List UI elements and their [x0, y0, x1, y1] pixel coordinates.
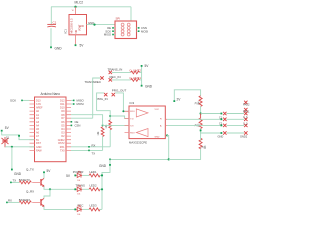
- svg-text:T2I: T2I: [130, 125, 134, 127]
- node GND (C1): [50, 46, 62, 50]
- svg-text:D6: D6: [61, 121, 65, 124]
- junction GND wire: [93, 24, 95, 26]
- pad row C: [219, 122, 248, 127]
- wire R6 top to gnd row: [200, 132, 202, 141]
- wire CE stub: [71, 120, 79, 124]
- junction on 5V wire at IC1 pin: [74, 6, 76, 8]
- svg-text:MOSI: MOSI: [77, 102, 84, 106]
- LED POWER: [76, 171, 82, 178]
- label MAX3232CPE: [129, 141, 147, 145]
- wire GND row: [5, 146, 35, 148]
- node 5V left: [1, 126, 10, 131]
- wire REC_IN to C_LIMT1: [112, 79, 131, 81]
- svg-text:VCC: VCC: [155, 109, 160, 111]
- svg-text:MLC2: MLC2: [75, 1, 84, 5]
- label REC_IN: [110, 75, 121, 79]
- resistor LED1: [89, 174, 100, 177]
- svg-text:VIN: VIN: [76, 29, 78, 33]
- svg-text:C_2: C_2: [243, 122, 248, 125]
- svg-text:D5: D5: [61, 125, 65, 128]
- wire Q_RX emitter to REC led: [44, 206, 75, 209]
- wire bus TRANSREC jog: [97, 111, 111, 120]
- node IC3 gnd pin square: [166, 135, 168, 137]
- svg-text:GND: GND: [218, 135, 224, 139]
- net stub X REC_IN: [109, 78, 112, 81]
- label GND on wire: [88, 21, 94, 25]
- pin SPI MOSI: [137, 29, 149, 33]
- svg-text:D2: D2: [61, 135, 65, 138]
- LED TRANS: [76, 185, 82, 192]
- svg-text:TX: TX: [13, 179, 17, 183]
- resistor divider R3 (vertical): [105, 120, 112, 130]
- svg-text:TX: TX: [92, 151, 96, 155]
- node 2V: [173, 97, 181, 102]
- wire emitter down to Q_RX collector: [44, 189, 50, 198]
- svg-text:10k: 10k: [97, 131, 100, 136]
- junction PRG_OUT at IC3: [122, 110, 124, 112]
- junction emitter: [49, 188, 51, 190]
- junction gnd rail row2: [101, 188, 103, 190]
- wire PRG_IN corner: [97, 93, 104, 111]
- label POWER: [73, 170, 84, 174]
- pad row B: [219, 116, 248, 121]
- wire IC3 R1out to pads: [167, 118, 221, 120]
- svg-text:A0: A0: [36, 110, 40, 113]
- resistor C_LIMT2: [129, 68, 141, 73]
- svg-text:5V: 5V: [47, 169, 52, 173]
- junction gnd rail row1: [101, 174, 103, 176]
- svg-text:SPI: SPI: [116, 17, 121, 21]
- pin Q_RX base: [32, 201, 41, 203]
- wire 5V to switch and pin: [2, 131, 35, 139]
- svg-text:C_3: C_3: [243, 116, 248, 119]
- resistor R6 (vertical): [199, 138, 207, 149]
- pin SPI OE: [107, 26, 115, 30]
- label C1: [53, 21, 57, 25]
- resistor C_LIMT1: [129, 76, 141, 81]
- svg-text:LED3: LED3: [90, 204, 97, 208]
- svg-text:D6: D6: [77, 214, 81, 216]
- label TRANSREC: [85, 80, 102, 84]
- svg-text:1k: 1k: [196, 123, 198, 126]
- svg-text:1k: 1k: [202, 145, 204, 148]
- wire C1 vertical: [50, 7, 52, 24]
- junction R4 top: [102, 124, 104, 126]
- transistor Q_RX: [41, 198, 44, 206]
- resistor divider R4 (vertical): [97, 127, 104, 137]
- connector SPI: [115, 21, 137, 39]
- label PRG_IN: [97, 97, 108, 101]
- net stub X PAD2: [243, 101, 250, 107]
- label D5: [77, 194, 81, 196]
- svg-text:5V: 5V: [5, 126, 10, 130]
- wire IC1 GND to SPI pin1: [87, 24, 116, 26]
- svg-text:PRG_OUT: PRG_OUT: [112, 89, 127, 93]
- wire TRANSREC from D8: [71, 117, 93, 119]
- wire LED2 resistor to gnd rail: [99, 188, 102, 190]
- svg-text:A: A: [160, 124, 162, 127]
- wire R4 bottom to TX row: [102, 136, 104, 150]
- svg-text:A3: A3: [36, 121, 40, 124]
- svg-text:1k: 1k: [196, 101, 198, 104]
- label GND bottom left: [14, 172, 22, 176]
- junction divider tap: [200, 112, 202, 114]
- label Q_RX: [26, 190, 34, 194]
- pin IC1 bottom to 5V: [75, 35, 77, 45]
- junction GND row: [11, 146, 13, 148]
- label S1: [6, 137, 10, 140]
- node TRANS led pin: [74, 188, 76, 190]
- transistor Q_TX: [41, 178, 44, 186]
- svg-text:GND: GND: [14, 172, 22, 176]
- wire GND stub down: [11, 147, 13, 171]
- label LED1: [90, 170, 97, 174]
- svg-text:R2O: R2O: [130, 132, 135, 134]
- svg-text:CSN: CSN: [75, 124, 81, 128]
- svg-text:VI: VI: [72, 10, 74, 12]
- node MLC2 label: [75, 1, 84, 5]
- svg-text:LED2: LED2: [90, 184, 97, 188]
- svg-text:D9: D9: [61, 110, 65, 113]
- wire MOSI stub: [71, 102, 84, 106]
- label D4: [77, 180, 81, 182]
- wire C_LIMT2 to rail: [139, 71, 141, 73]
- net stub X PRG_OUT: [112, 93, 115, 96]
- pin SPI CSN: [137, 26, 147, 30]
- svg-text:R: R: [160, 118, 162, 120]
- pin SPI SCK: [105, 29, 115, 33]
- svg-text:MIC5205-3.3: MIC5205-3.3: [70, 18, 74, 34]
- pin SPI MISO: [104, 33, 115, 37]
- wire CSN stub: [71, 124, 81, 128]
- svg-text:10k: 10k: [105, 124, 108, 129]
- svg-text:TRANS_IN: TRANS_IN: [108, 68, 123, 72]
- svg-text:T1I: T1I: [130, 118, 134, 120]
- wire RX to BASERX: [6, 202, 19, 204]
- label D6: [77, 214, 81, 216]
- svg-text:RX: RX: [8, 198, 12, 202]
- svg-text:R1O: R1O: [130, 111, 135, 113]
- svg-text:S1: S1: [6, 137, 10, 140]
- node REC led pin: [74, 209, 76, 211]
- svg-text:RAW: RAW: [36, 150, 42, 153]
- label SCK: [10, 99, 16, 103]
- svg-text:A7: A7: [36, 135, 40, 138]
- pin IC1 top: [72, 7, 76, 15]
- wire LED1 resistor to gnd rail: [99, 174, 102, 176]
- svg-text:Q_TX: Q_TX: [26, 167, 34, 171]
- label REC: [78, 204, 84, 208]
- wire R5 bottom to gnd row: [201, 129, 222, 133]
- svg-text:GND: GND: [36, 146, 42, 149]
- wire 5V to Q_TX collector: [43, 173, 45, 178]
- label TRANS: [75, 183, 85, 187]
- wire IC3 T1out to pads: [167, 124, 221, 126]
- junction gnd T: [168, 158, 170, 160]
- wire C1 to GND: [50, 28, 52, 47]
- module Arduino Nano U1: [30, 97, 72, 162]
- svg-text:RX1: RX1: [60, 146, 65, 149]
- svg-text:GND2: GND2: [240, 135, 248, 139]
- svg-text:C1: C1: [53, 21, 57, 25]
- svg-text:MISO: MISO: [104, 33, 112, 37]
- svg-text:Q_RX: Q_RX: [26, 190, 34, 194]
- wire TX to BASETX: [10, 182, 19, 184]
- svg-text:IC3: IC3: [130, 101, 135, 105]
- wire tap to pad row A: [201, 113, 222, 115]
- label BASERX: [19, 198, 30, 202]
- wire MISO stub: [71, 99, 84, 103]
- svg-text:D7: D7: [61, 117, 65, 120]
- wire LED TRANS to resistor: [82, 188, 89, 190]
- resistor LED3: [89, 208, 100, 211]
- label RX (base): [8, 198, 12, 202]
- wire LED POWER to resistor: [82, 174, 89, 176]
- net stub X TRANS_IN: [109, 71, 112, 74]
- wire TX from TX1: [71, 150, 103, 156]
- wire R4 to junction: [200, 106, 202, 113]
- node R5 bottom square: [200, 130, 202, 132]
- label LED3: [90, 204, 97, 208]
- svg-text:D10: D10: [60, 107, 65, 110]
- wire Q_TX emitter to TRANS led: [44, 186, 75, 189]
- resistor R4 (vertical): [196, 96, 203, 107]
- voltage regulator IC1: [69, 15, 87, 35]
- svg-text:5V: 5V: [80, 44, 85, 48]
- wire TRANSREC corner: [93, 78, 101, 118]
- net stub X TRANSREC: [100, 76, 103, 79]
- svg-text:D3: D3: [61, 132, 65, 135]
- svg-text:GND: GND: [145, 84, 153, 88]
- wire TRANS_IN to C_LIMT2: [112, 71, 131, 73]
- label SPI: [116, 17, 121, 21]
- net stub X PRG_IN: [104, 93, 107, 96]
- svg-text:MOSI: MOSI: [141, 29, 148, 33]
- junction bus: [109, 115, 111, 117]
- wire gnd to R6: [169, 149, 201, 160]
- wire rail 5V-GND: [141, 66, 143, 86]
- svg-text:TX0: TX0: [60, 150, 65, 153]
- wire to IC3 pin2: [110, 116, 129, 118]
- svg-text:SCK: SCK: [10, 99, 16, 103]
- label LED2: [90, 184, 97, 188]
- svg-text:D5: D5: [77, 194, 81, 196]
- svg-text:A6: A6: [36, 132, 40, 135]
- label TRANS_IN: [108, 68, 123, 72]
- svg-text:R4: R4: [198, 101, 200, 105]
- capacitor C1: [47, 24, 56, 27]
- node GND mid square: [109, 164, 111, 166]
- svg-text:GND: GND: [88, 21, 94, 25]
- node 5V (rail top): [141, 64, 150, 68]
- label Arduino Nano: [41, 92, 61, 96]
- svg-text:RX: RX: [92, 143, 96, 147]
- svg-text:REC_IN: REC_IN: [110, 75, 121, 79]
- wire R3 bottom to RX row: [109, 130, 111, 147]
- node 5V (IC1 out): [75, 44, 85, 48]
- resistor BASETX: [19, 181, 31, 184]
- node 5V (Q_TX collector): [43, 169, 51, 173]
- wire PRG_OUT to IC3 pin1: [115, 93, 129, 111]
- label BASETX: [19, 178, 30, 182]
- wire LED3 resistor to gnd rail: [99, 208, 102, 210]
- node 5V (POWER led): [66, 174, 76, 178]
- svg-text:AREF: AREF: [36, 107, 43, 110]
- IC MAX3232 IC3: [125, 106, 168, 139]
- svg-text:A4: A4: [36, 125, 40, 128]
- svg-text:RST2: RST2: [58, 142, 65, 145]
- pad row D GND: [218, 131, 248, 138]
- svg-text:A2: A2: [36, 117, 40, 120]
- switch S1: [2, 137, 9, 147]
- svg-text:PRG_IN: PRG_IN: [97, 97, 108, 101]
- svg-text:R6: R6: [205, 145, 207, 149]
- label Q_TX: [26, 167, 34, 171]
- wire SPI top entry: [130, 7, 132, 21]
- svg-text:LED1: LED1: [90, 170, 97, 174]
- label IC3: [130, 101, 135, 105]
- LED REC: [76, 205, 82, 212]
- pin Q_TX base: [32, 181, 41, 183]
- svg-text:PAD2: PAD2: [243, 102, 250, 106]
- svg-text:5V: 5V: [66, 174, 71, 178]
- junction gnd line: [109, 158, 111, 160]
- resistor LED2: [89, 188, 100, 191]
- svg-text:5V: 5V: [145, 64, 150, 68]
- svg-text:D4: D4: [77, 180, 81, 182]
- svg-text:TRANSREC: TRANSREC: [85, 80, 102, 84]
- svg-text:GND: GND: [55, 46, 63, 50]
- label IC1: [63, 29, 67, 34]
- svg-text:RST: RST: [36, 142, 41, 145]
- wire 2V stub: [174, 90, 200, 101]
- wire C_LIMT1 to rail: [139, 79, 141, 81]
- wire 5V top horizontal: [51, 6, 131, 8]
- wire IC3 gnd down-left: [110, 135, 169, 159]
- svg-text:2V: 2V: [177, 97, 182, 101]
- svg-text:IC1: IC1: [63, 29, 67, 34]
- svg-text:GND: GND: [99, 164, 107, 168]
- wire SCK stub: [21, 100, 29, 102]
- svg-text:POWER: POWER: [73, 170, 84, 174]
- svg-text:GND: GND: [79, 26, 84, 28]
- wire PRG_IN from D9: [71, 115, 103, 126]
- svg-text:GND: GND: [155, 136, 160, 138]
- svg-text:Arduino Nano: Arduino Nano: [41, 92, 61, 96]
- pad row A: [221, 112, 248, 115]
- resistor R5 (vertical): [196, 114, 203, 129]
- junction 5V switch: [18, 135, 20, 137]
- wire gnd rail down: [102, 159, 110, 209]
- label PRG_OUT: [112, 89, 127, 93]
- wire LED REC to resistor: [82, 208, 89, 210]
- net stub X PAD1: [243, 108, 250, 114]
- svg-text:MAX3232CPE: MAX3232CPE: [129, 141, 147, 145]
- wire RX from RX0: [71, 143, 110, 147]
- node GND (rail bottom): [141, 84, 153, 88]
- label GND mid: [99, 164, 107, 168]
- label TX (base): [13, 179, 17, 183]
- wire R4 top to IC3 pin4: [103, 124, 129, 126]
- resistor BASERX: [19, 201, 31, 204]
